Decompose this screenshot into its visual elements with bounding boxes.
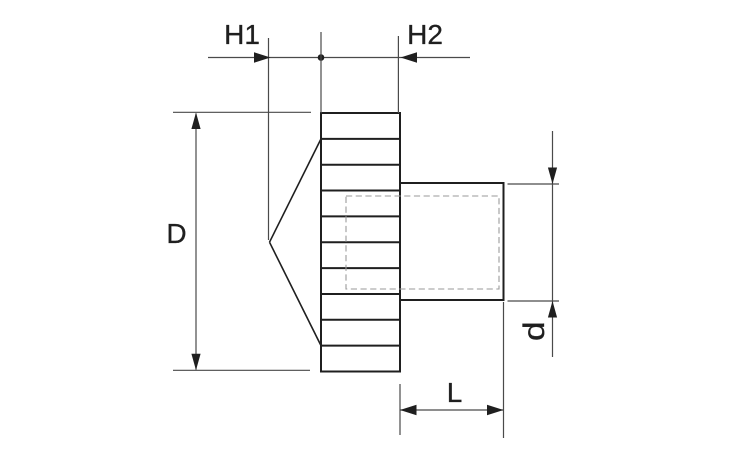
extension line from dot to head corner (320, 32, 322, 113)
svg-text:d: d (517, 321, 551, 341)
knurl line 9 (321, 345, 400, 347)
shaft outline (400, 183, 504, 300)
svg-text:L: L (447, 377, 463, 408)
chamfer top edge (270, 139, 322, 242)
extension line at cone apex (268, 38, 270, 240)
top dimension line H1/H2 (208, 57, 470, 59)
shared dimension dot (318, 54, 325, 61)
D top extension line (173, 111, 311, 113)
svg-text:H2: H2 (407, 19, 443, 50)
d top extension line (508, 183, 560, 185)
L left arrowhead (400, 405, 417, 416)
knurl line 8 (321, 319, 400, 321)
hidden hole (dashed) (346, 196, 499, 289)
knurl line 2 (321, 164, 400, 166)
knurl line 3 (321, 190, 400, 192)
extension line at head right face (397, 36, 399, 113)
L dimension line (400, 409, 504, 411)
knurl line 7 (321, 293, 400, 295)
H2 arrowhead (401, 52, 418, 63)
svg-text:H1: H1 (224, 19, 260, 50)
chamfer bottom edge (270, 242, 322, 345)
D bottom extension line (173, 369, 310, 371)
svg-text:D: D (166, 218, 186, 249)
d bottom arrowhead (548, 301, 557, 318)
knurl line 1 (321, 138, 400, 140)
D bottom arrowhead (191, 354, 200, 371)
H1 arrowhead (254, 52, 271, 63)
L right extension line (503, 302, 505, 438)
knurled head outline (321, 113, 400, 372)
d dimension line (552, 131, 554, 357)
knurl line 5 (321, 241, 400, 243)
d top arrowhead (548, 168, 557, 185)
d bottom extension line (508, 300, 560, 302)
knurl line 4 (321, 215, 400, 217)
knurl line 6 (321, 267, 400, 269)
L left extension line (399, 384, 401, 435)
D dimension line (195, 114, 197, 370)
L right arrowhead (487, 405, 504, 416)
D top arrowhead (191, 113, 200, 130)
